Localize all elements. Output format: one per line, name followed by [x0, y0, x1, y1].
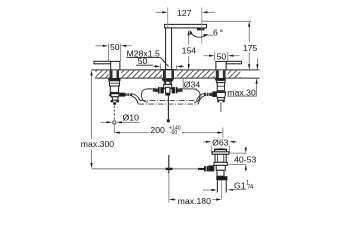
spout T left nipple [153, 88, 159, 92]
left valve right port [119, 93, 125, 97]
waste lower ring [214, 162, 227, 165]
spout nut [164, 81, 171, 84]
waste side port [208, 165, 214, 171]
waste tail threads [216, 180, 218, 192]
left handle lower block [110, 86, 118, 92]
dimension 175 [202, 21, 258, 69]
svg-text:max.180: max.180 [178, 196, 211, 206]
svg-text:200: 200 [150, 125, 165, 135]
dimension max.180 [169, 174, 222, 206]
hose loop right turn [193, 89, 200, 102]
svg-text:50: 50 [138, 56, 148, 66]
dimension 40-53 [227, 147, 256, 171]
left valve feet [111, 100, 114, 102]
svg-text:G1: G1 [234, 180, 246, 190]
spout aerator [197, 28, 204, 30]
label O34 [183, 78, 200, 89]
dimension 200 +140/-60 [114, 125, 222, 138]
svg-text:175: 175 [243, 43, 258, 53]
left valve body [110, 92, 120, 93]
hose centerline 2 [139, 103, 199, 105]
waste lower body [217, 170, 224, 176]
waste end block [216, 176, 227, 180]
lower dashes to 200 line [113, 124, 115, 133]
svg-text:50: 50 [110, 42, 120, 52]
right handle lower block [217, 83, 224, 91]
label O10 [101, 112, 140, 123]
deck bottom line [95, 77, 260, 79]
pipe ball Ø10 [113, 121, 116, 124]
spout washer [162, 79, 174, 82]
dimension max.300 [81, 70, 114, 168]
dimension 6 deg [190, 28, 223, 38]
dimension 50 left [96, 42, 132, 61]
waste lid [215, 149, 227, 152]
right valve body [216, 91, 226, 92]
dimension 50 center [136, 56, 184, 70]
right hose nipple [204, 93, 212, 96]
right handle shank block [217, 80, 226, 82]
spout T right port [172, 87, 178, 93]
hose centerline 1 [140, 100, 197, 102]
right handle through-deck shank [216, 70, 226, 78]
deck top line [91, 69, 259, 71]
left valve tip [113, 102, 116, 105]
svg-text:max.30: max.30 [227, 88, 256, 98]
waste flange [212, 152, 229, 155]
spout T left port [158, 87, 164, 93]
label M28x1.5 [127, 49, 169, 67]
left handle shank block [109, 81, 119, 86]
spout T right nipple [177, 88, 183, 92]
left handle through-deck shank [110, 70, 120, 78]
svg-text:/4: /4 [248, 185, 254, 191]
spout bottom stub [165, 93, 170, 95]
svg-text:Ø63: Ø63 [212, 137, 229, 147]
deck hatch [96, 71, 241, 78]
svg-text:127: 127 [177, 8, 192, 18]
right handle body [216, 61, 226, 70]
svg-text:-60: -60 [170, 130, 178, 136]
hose loop top lines [147, 88, 193, 90]
left handle lever [94, 61, 111, 64]
spout through-deck [163, 70, 174, 78]
left handle body [111, 61, 120, 70]
right valve skirt [217, 98, 224, 101]
rod coupling [166, 168, 173, 170]
pull rod lower [168, 155, 170, 174]
svg-text:max.300: max.300 [81, 139, 114, 149]
waste mid body [216, 165, 225, 170]
svg-text:Ø34: Ø34 [184, 79, 201, 89]
waste: dimension O63 [204, 137, 238, 153]
right valve left port [212, 91, 216, 97]
left centerline dashes [113, 106, 115, 121]
svg-text:50: 50 [217, 52, 227, 62]
right valve hose walls [197, 94, 205, 104]
horizontal rod line [92, 168, 199, 170]
dimension max.30 [227, 58, 258, 97]
svg-text:40-53: 40-53 [234, 155, 256, 165]
dimension 50 right [204, 52, 240, 62]
svg-text:154: 154 [182, 46, 197, 56]
svg-text:6 °: 6 ° [213, 28, 223, 38]
dimension 154 [182, 30, 197, 70]
hose loop left turn [141, 89, 147, 102]
right valve feet [217, 100, 219, 102]
left valve skirt [112, 97, 118, 100]
spout T center [166, 87, 171, 93]
spout base flange [161, 69, 175, 70]
spout riser [166, 28, 172, 70]
right handle locknut [215, 78, 226, 80]
svg-text:Ø10: Ø10 [123, 112, 140, 122]
left valve left cap [109, 93, 111, 96]
right handle lever [226, 61, 241, 64]
waste body [215, 154, 226, 162]
spout T body [164, 85, 172, 89]
spout top bar [165, 24, 207, 28]
left valve hose walls [132, 94, 140, 104]
dimension 127 [155, 8, 215, 45]
right valve stub [220, 102, 222, 112]
left handle locknut [108, 78, 120, 81]
left hose nipple [125, 93, 132, 96]
label G1 1/4 [203, 180, 254, 191]
pull rod upper [167, 96, 169, 120]
